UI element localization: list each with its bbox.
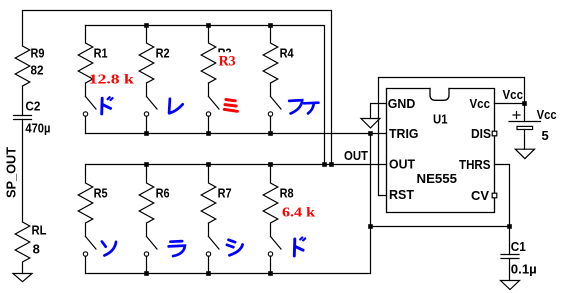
svg-text:R5: R5 bbox=[94, 186, 108, 201]
switch SW3 under R3 bbox=[206, 83, 219, 134]
wire GND pin bbox=[371, 104, 387, 119]
svg-text:R7: R7 bbox=[218, 186, 232, 201]
svg-text:R1: R1 bbox=[94, 46, 108, 61]
ground under C1 bbox=[501, 281, 520, 290]
svg-text:6.4 k: 6.4 k bbox=[282, 204, 316, 219]
junction (208.5,25.5) bbox=[206, 23, 211, 28]
wire RST to top bbox=[379, 78, 525, 196]
battery V1 Vcc 5 bbox=[509, 121, 541, 123]
wire SP_OUT net bbox=[22, 120, 24, 223]
junction (331.5,164.5) bbox=[329, 162, 334, 167]
white box over R3 label bbox=[217, 52, 239, 67]
capacitor C2 bbox=[14, 115, 32, 117]
svg-text:RL: RL bbox=[32, 223, 47, 238]
resistor R2 bbox=[139, 26, 154, 84]
junction (270.5,133.5) bbox=[268, 131, 273, 136]
resistor R1 bbox=[78, 26, 93, 84]
note ド (do) for R1 bbox=[102, 97, 113, 114]
svg-text:C1: C1 bbox=[511, 239, 526, 254]
resistor R4 bbox=[263, 26, 278, 84]
wire bottom bus bbox=[86, 134, 371, 274]
svg-text:0.1µ: 0.1µ bbox=[511, 262, 537, 277]
svg-text:R6: R6 bbox=[156, 186, 170, 201]
junction (146.5,164.5) bbox=[144, 162, 149, 167]
DIS pin square bbox=[492, 131, 497, 136]
note ド (do) for R8 bbox=[294, 238, 305, 256]
resistor R8 bbox=[263, 165, 278, 224]
svg-text:Vcc: Vcc bbox=[537, 107, 557, 122]
note ソ (so) for R5 bbox=[102, 242, 116, 256]
ground at GND pin bbox=[361, 119, 380, 128]
wire R9 to C2 bbox=[22, 86, 24, 116]
svg-text:DIS: DIS bbox=[471, 126, 491, 141]
wire TRIG node horizontal bbox=[371, 226, 510, 228]
plus sign bbox=[513, 114, 520, 116]
switch SW1 under R1 bbox=[83, 83, 96, 134]
switch SW8 under R8 bbox=[268, 223, 281, 274]
ground under RL bbox=[13, 274, 32, 282]
katakana bbox=[102, 97, 319, 256]
svg-text:C2: C2 bbox=[25, 99, 40, 114]
svg-text:Vcc: Vcc bbox=[470, 96, 491, 111]
svg-text:GND: GND bbox=[388, 96, 416, 111]
note ミ (mi, red) for R3 bbox=[224, 100, 237, 112]
IC U1 NE555 box bbox=[387, 89, 495, 213]
junction (270.5,273.5) bbox=[268, 271, 273, 276]
switch SW4 under R4 bbox=[268, 83, 281, 134]
svg-text:R8: R8 bbox=[280, 186, 294, 201]
CV pin square bbox=[492, 193, 497, 198]
wire TRIG bus bbox=[86, 133, 387, 135]
svg-text:U1: U1 bbox=[433, 111, 448, 126]
wire top bus R1-R4 bbox=[86, 26, 325, 165]
switch SW2 under R2 bbox=[144, 83, 157, 134]
svg-text:SP_OUT: SP_OUT bbox=[4, 147, 19, 198]
wire OUT bus bbox=[86, 164, 387, 166]
wire THRS to C1 bbox=[495, 165, 510, 227]
junction (270.5,164.5) bbox=[268, 162, 273, 167]
svg-text:R2: R2 bbox=[156, 46, 170, 61]
svg-text:RST: RST bbox=[389, 187, 414, 202]
wire Vcc pin bbox=[495, 103, 525, 105]
svg-text:TRIG: TRIG bbox=[389, 126, 419, 141]
svg-text:THRS: THRS bbox=[459, 157, 491, 172]
resistor R5 bbox=[78, 165, 93, 224]
switch SW5 under R5 bbox=[83, 223, 96, 274]
svg-text:R4: R4 bbox=[280, 46, 295, 61]
junction (509.5,226.5) bbox=[507, 224, 512, 229]
resistor R9 bbox=[15, 46, 30, 86]
svg-text:NE555: NE555 bbox=[417, 171, 458, 186]
svg-text:12.8 k: 12.8 k bbox=[89, 71, 135, 86]
capacitor C1 bbox=[509, 227, 511, 255]
ground under battery bbox=[515, 149, 534, 158]
junction (146.5,273.5) bbox=[144, 271, 149, 276]
junction (146.5,25.5) bbox=[144, 23, 149, 28]
junction (524.5,103.5) bbox=[522, 101, 527, 106]
switch SW7 under R7 bbox=[206, 223, 219, 274]
resistor R7 bbox=[201, 165, 216, 224]
svg-text:82: 82 bbox=[31, 63, 44, 78]
resistor RL bbox=[15, 222, 30, 274]
junction (324.5,164.5) bbox=[322, 162, 327, 167]
svg-text:R3: R3 bbox=[219, 53, 236, 69]
svg-text:470µ: 470µ bbox=[25, 121, 50, 136]
junction (370.5,226.5) bbox=[368, 224, 373, 229]
svg-text:Vcc: Vcc bbox=[503, 87, 524, 102]
svg-text:8: 8 bbox=[33, 242, 40, 257]
resistor R6 bbox=[139, 165, 154, 224]
svg-text:5: 5 bbox=[542, 128, 549, 143]
switch SW6 under R6 bbox=[144, 223, 157, 274]
top resistor-switch columns inserted here bbox=[78, 26, 281, 274]
note レ (re) for R2 bbox=[169, 99, 183, 114]
resistor R3 bbox=[201, 26, 216, 84]
junction (208.5,164.5) bbox=[206, 162, 211, 167]
wire top main bbox=[23, 11, 332, 165]
IC notch bbox=[430, 89, 449, 101]
note ラ (ra) for R6 bbox=[169, 241, 185, 256]
junction (370.5,133.5) bbox=[368, 131, 373, 136]
svg-text:R9: R9 bbox=[31, 46, 45, 61]
svg-text:CV: CV bbox=[471, 188, 489, 203]
svg-text:OUT: OUT bbox=[344, 148, 368, 163]
note シ (si) for R7 bbox=[227, 240, 243, 256]
note ファ (fa) for R4 bbox=[289, 100, 318, 113]
pin open squares bbox=[492, 131, 497, 198]
junction (270.5,25.5) bbox=[268, 23, 273, 28]
battery Vcc wire bbox=[524, 104, 526, 122]
svg-text:OUT: OUT bbox=[389, 157, 415, 172]
junction (146.5,133.5) bbox=[144, 131, 149, 136]
junction (208.5,273.5) bbox=[206, 271, 211, 276]
junction (208.5,133.5) bbox=[206, 131, 211, 136]
wire left rail top bbox=[22, 11, 24, 47]
